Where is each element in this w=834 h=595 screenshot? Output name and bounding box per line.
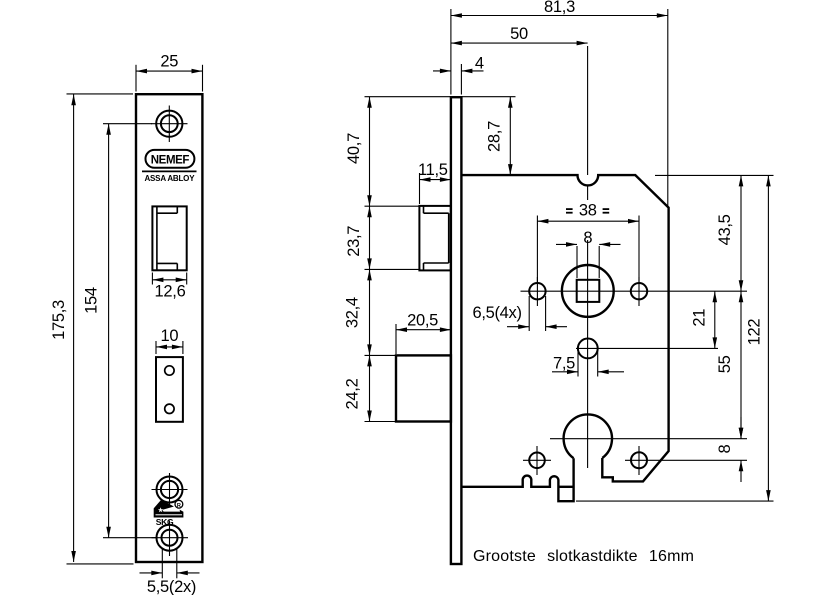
dim 25 <box>135 65 137 92</box>
svg-text:43,5: 43,5 <box>716 214 734 245</box>
dim 24,2 <box>365 421 397 423</box>
dim 23,7 <box>365 268 421 270</box>
svg-text:12,6: 12,6 <box>155 283 186 301</box>
faceplate side view <box>451 97 462 564</box>
dim 11,5 <box>419 173 421 204</box>
dim 40,7 <box>365 96 516 98</box>
fixing hole top-left <box>529 283 545 299</box>
fixing hole bottom-right <box>631 452 647 468</box>
dim 8 spindle <box>576 246 578 278</box>
faceplate outline <box>136 94 202 562</box>
dim 7,5 <box>577 352 579 377</box>
dim 50 <box>451 42 588 44</box>
dim 43,5 <box>740 175 742 291</box>
dim 28,7 <box>509 97 511 175</box>
svg-text:81,3: 81,3 <box>544 0 575 16</box>
svg-text:28,7: 28,7 <box>485 121 503 152</box>
strike box <box>156 357 183 422</box>
cylinder hole <box>564 414 612 458</box>
svg-text:20,5: 20,5 <box>407 312 438 330</box>
svg-text:10: 10 <box>161 327 179 345</box>
svg-text:8: 8 <box>583 229 592 247</box>
svg-text:122: 122 <box>745 319 763 346</box>
dim 12,6 <box>151 273 153 285</box>
fixing hole bottom-left <box>529 453 545 469</box>
screw hole top <box>156 111 182 137</box>
extension bottom-right hole <box>625 459 747 461</box>
svg-text:23,7: 23,7 <box>345 226 363 257</box>
svg-text:21: 21 <box>691 309 709 327</box>
svg-text:ASSA ABLOY: ASSA ABLOY <box>144 174 195 183</box>
svg-text:5,5(2x): 5,5(2x) <box>147 578 196 595</box>
dim 32,4 <box>365 354 397 356</box>
fixing hole top-right <box>631 283 647 299</box>
svg-text:175,3: 175,3 <box>50 300 68 340</box>
screw hole SKG upper <box>157 477 183 503</box>
dim 81,3 <box>450 9 452 95</box>
svg-text:50: 50 <box>510 25 528 43</box>
svg-text:38: 38 <box>579 202 597 220</box>
dim 175,3 <box>67 93 134 95</box>
extension top right <box>655 174 774 176</box>
svg-text:6,5(4x): 6,5(4x) <box>472 304 521 322</box>
svg-text:8: 8 <box>716 445 734 454</box>
svg-text:55: 55 <box>716 355 734 373</box>
latch side view <box>419 206 451 271</box>
dim 5,5(2x) <box>161 549 163 578</box>
latch cutout <box>152 206 186 270</box>
centerline hole 7,5 <box>576 347 718 349</box>
svg-text:7,5: 7,5 <box>553 355 575 373</box>
svg-text:Grootste slotkastdikte 16mm: Grootste slotkastdikte 16mm <box>473 548 694 565</box>
svg-text:40,7: 40,7 <box>345 133 363 164</box>
dim 4 <box>460 64 462 95</box>
SKG logo <box>154 500 183 517</box>
dim 8 bottom right <box>740 417 742 439</box>
dim 154 <box>103 123 152 125</box>
lock case outline <box>461 175 668 481</box>
centerline hub <box>521 290 748 292</box>
dim 38 <box>536 216 538 283</box>
spindle hub <box>562 265 614 317</box>
dim 55 <box>740 291 742 439</box>
dim 10 <box>155 341 157 354</box>
svg-text:32,4: 32,4 <box>344 297 362 328</box>
dim 21 <box>714 291 716 348</box>
screw hole bottom <box>157 525 183 551</box>
svg-text:154: 154 <box>83 287 101 314</box>
extension bottom 122 <box>576 500 774 502</box>
dim 6,5(4x) <box>528 296 530 331</box>
NEMEF logo <box>146 150 195 168</box>
svg-text:NEMEF: NEMEF <box>151 154 190 166</box>
svg-text:11,5: 11,5 <box>418 161 448 179</box>
centerline vertical <box>587 46 589 175</box>
deadbolt side view <box>396 355 451 421</box>
dim 122 <box>767 175 769 501</box>
centerline cylinder <box>550 438 747 440</box>
svg-text:25: 25 <box>160 53 178 71</box>
svg-text:4: 4 <box>475 54 484 72</box>
svg-text:24,2: 24,2 <box>344 378 362 409</box>
hole 7,5 <box>578 339 598 359</box>
dim 20,5 <box>395 324 397 354</box>
svg-text:R: R <box>177 503 181 509</box>
